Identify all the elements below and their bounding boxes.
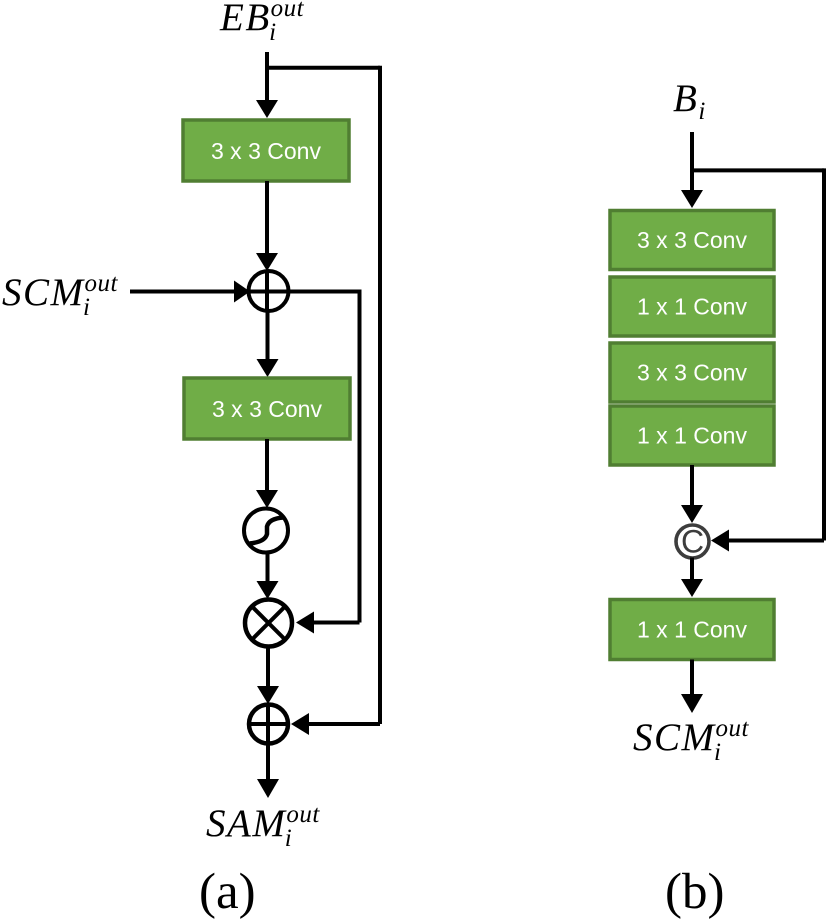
- wire adder1 to box A2: [257, 311, 279, 377]
- wire B to box B1: [681, 132, 703, 208]
- wire box B4 to concat: [681, 465, 703, 523]
- conv box B3: 3 x 3 Conv: [610, 343, 774, 402]
- svg-text:C: C: [681, 524, 704, 560]
- conv box B2: 1 x 1 Conv: [610, 277, 774, 336]
- wire outer skip vertical (b): [822, 168, 826, 540]
- wire concat to box B5: [681, 558, 703, 598]
- wire inner branch into multiplier (a): [296, 612, 360, 634]
- wire multiplier to adder2: [257, 647, 279, 705]
- adder1 circle-plus (a): [249, 271, 360, 311]
- wire sigmoid to multiplier: [257, 553, 279, 600]
- svg-text:1 x 1 Conv: 1 x 1 Conv: [637, 294, 747, 320]
- wire outer skip into adder2 (a): [291, 713, 380, 735]
- svg-text:3 x 3 Conv: 3 x 3 Conv: [211, 138, 321, 164]
- wire box A1 to adder1: [256, 181, 278, 271]
- conv box B4: 1 x 1 Conv: [610, 406, 774, 465]
- multiplier circle-times (a): [245, 600, 292, 647]
- conv box B5: 1 x 1 Conv: [610, 600, 774, 660]
- svg-text:1 x 1 Conv: 1 x 1 Conv: [637, 617, 747, 643]
- wire EB to 3x3 Conv (a): [256, 52, 278, 118]
- svg-text:1 x 1 Conv: 1 x 1 Conv: [637, 423, 747, 449]
- wire inner branch vertical (a): [358, 290, 362, 623]
- node SCM_i^out (output label, diagram b): [633, 715, 750, 766]
- svg-text:3 x 3 Conv: 3 x 3 Conv: [637, 227, 747, 253]
- node EB_i^out (input label, diagram a): [219, 0, 305, 46]
- sigmoid activation circle (a): [244, 509, 288, 553]
- wire box A2 to sigmoid: [256, 439, 278, 508]
- conv box B1: 3 x 3 Conv: [610, 211, 774, 270]
- conv box A2: 3 x 3 Conv: [184, 378, 350, 439]
- wire outer skip branch vertical (a): [378, 66, 382, 724]
- wire adder2 to SAM output: [257, 779, 279, 798]
- svg-text:(a): (a): [199, 864, 256, 920]
- node SAM_i^out (output label, diagram a): [206, 801, 320, 852]
- node B_i (input label, diagram b): [673, 77, 706, 125]
- wire SCM into adder1: [130, 281, 250, 303]
- conv box A1: 3 x 3 Conv: [183, 120, 349, 181]
- wire branch top horizontal (a): [265, 66, 380, 70]
- concat node C (b): [676, 524, 709, 560]
- node SCM_i^out (input label, diagram a): [2, 270, 119, 321]
- svg-text:3 x 3 Conv: 3 x 3 Conv: [212, 396, 322, 422]
- wire branch horizontal (b): [690, 168, 824, 172]
- svg-text:(b): (b): [665, 864, 724, 920]
- wire outer skip into concat (b): [711, 530, 824, 552]
- adder2 circle-plus (a): [249, 705, 288, 781]
- wire box B5 to SCM output: [681, 660, 703, 714]
- svg-text:3 x 3 Conv: 3 x 3 Conv: [637, 360, 747, 386]
